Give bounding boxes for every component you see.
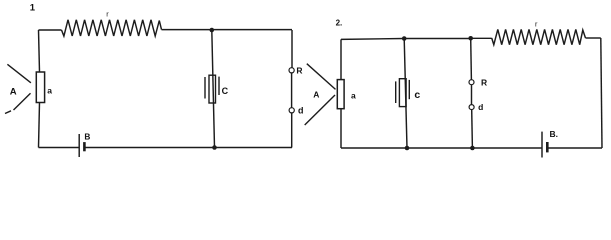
wire c branch vertical (circuit 2): [404, 39, 407, 149]
node junction top of Rd branch (circuit 2): [468, 36, 473, 41]
node junction bottom of c branch (circuit 2): [405, 146, 410, 151]
wire left side lower (circuit 2): [340, 109, 342, 148]
svg-text:d: d: [478, 102, 483, 112]
wire right side lower (circuit 1): [291, 113, 293, 148]
label 1 (figure number, circuit 1): [30, 3, 36, 14]
wire top segment before resistor (circuit 2): [471, 37, 492, 39]
photocell a (circuit 2): [337, 80, 344, 109]
wire top-right segment (circuit 1): [162, 29, 293, 31]
wire left side upper (circuit 1): [39, 30, 40, 72]
value label a (circuit 1 photocell): [47, 86, 52, 96]
light ray lower (circuit 1): [14, 93, 31, 110]
node junction top of C branch (circuit 1): [210, 28, 215, 33]
pin label R (circuit 2): [481, 78, 487, 88]
terminal R (circuit 1): [289, 68, 294, 73]
light ray lower (circuit 2): [305, 95, 335, 125]
pin label d (circuit 1): [298, 105, 304, 115]
node junction bottom of Rd branch (circuit 2): [470, 146, 475, 151]
wire top-left segment (circuit 1): [39, 29, 62, 31]
resistor r (circuit 1): [62, 20, 162, 36]
value label r (circuit 1 resistor): [106, 10, 109, 19]
wire right side (circuit 2): [601, 38, 602, 148]
value label B (circuit 2 battery): [550, 129, 559, 139]
photocell a (circuit 1): [36, 72, 44, 103]
wire C branch vertical (circuit 1): [212, 30, 215, 148]
svg-text:d: d: [298, 105, 304, 115]
value label r (circuit 2 resistor): [535, 20, 538, 29]
light ray upper (circuit 2): [307, 64, 336, 90]
wire right side middle (circuit 1): [291, 73, 293, 108]
svg-text:2.: 2.: [336, 18, 343, 27]
pin label R (circuit 1): [296, 65, 302, 75]
node junction top of c branch (circuit 2): [402, 36, 407, 41]
wire top right segment (circuit 2): [586, 37, 601, 39]
resistor r (circuit 2): [492, 29, 586, 44]
value label C (circuit 1 capacitor): [222, 86, 229, 96]
value label a (circuit 2 photocell): [351, 90, 356, 100]
svg-text:R: R: [296, 65, 302, 75]
value label c (circuit 2 capacitor): [414, 89, 420, 101]
terminal R (circuit 2): [469, 80, 474, 85]
pin label d (circuit 2): [478, 102, 483, 112]
label A incident light (circuit 1): [10, 87, 17, 98]
label A incident light (circuit 2): [313, 89, 319, 99]
svg-text:A: A: [313, 89, 319, 99]
label 2 (figure number, circuit 2): [336, 18, 343, 27]
wire bottom segment left of battery (circuit 2): [341, 147, 542, 149]
light ray upper (circuit 1): [7, 64, 31, 83]
wire Rd branch middle (circuit 2): [471, 85, 473, 105]
battery B (circuit 2): [542, 132, 547, 158]
battery B (circuit 1): [79, 134, 84, 157]
node junction bottom of C branch (circuit 1): [212, 145, 217, 150]
svg-text:a: a: [351, 90, 356, 100]
svg-text:c: c: [414, 89, 420, 101]
svg-text:a: a: [47, 86, 52, 96]
svg-text:1: 1: [30, 3, 36, 14]
wire bottom left segment (circuit 1): [39, 147, 80, 149]
wire Rd branch lower (circuit 2): [471, 110, 474, 148]
wire top segment between c and Rd branches (circuit 2): [404, 38, 471, 40]
light ray lower dash (circuit 1): [5, 111, 11, 114]
svg-text:A: A: [10, 87, 17, 98]
wire bottom right segment (circuit 2): [547, 147, 602, 149]
value label B (circuit 1 battery): [84, 132, 90, 142]
terminal d (circuit 1): [289, 108, 294, 113]
svg-text:B: B: [84, 132, 90, 142]
capacitor C (circuit 1): [205, 75, 219, 103]
wire right side upper (circuit 1): [291, 30, 293, 68]
svg-text:B.: B.: [550, 129, 559, 139]
wire top segment left of c branch (circuit 2): [341, 38, 404, 41]
capacitor c (circuit 2): [396, 79, 410, 107]
wire Rd branch upper (circuit 2): [470, 38, 473, 79]
svg-text:C: C: [222, 86, 229, 96]
wire bottom right segment (circuit 1): [85, 147, 292, 149]
svg-text:R: R: [481, 78, 487, 88]
wire left side upper (circuit 2): [340, 39, 342, 79]
wire left side lower (circuit 1): [39, 103, 40, 148]
terminal d (circuit 2): [469, 105, 474, 110]
